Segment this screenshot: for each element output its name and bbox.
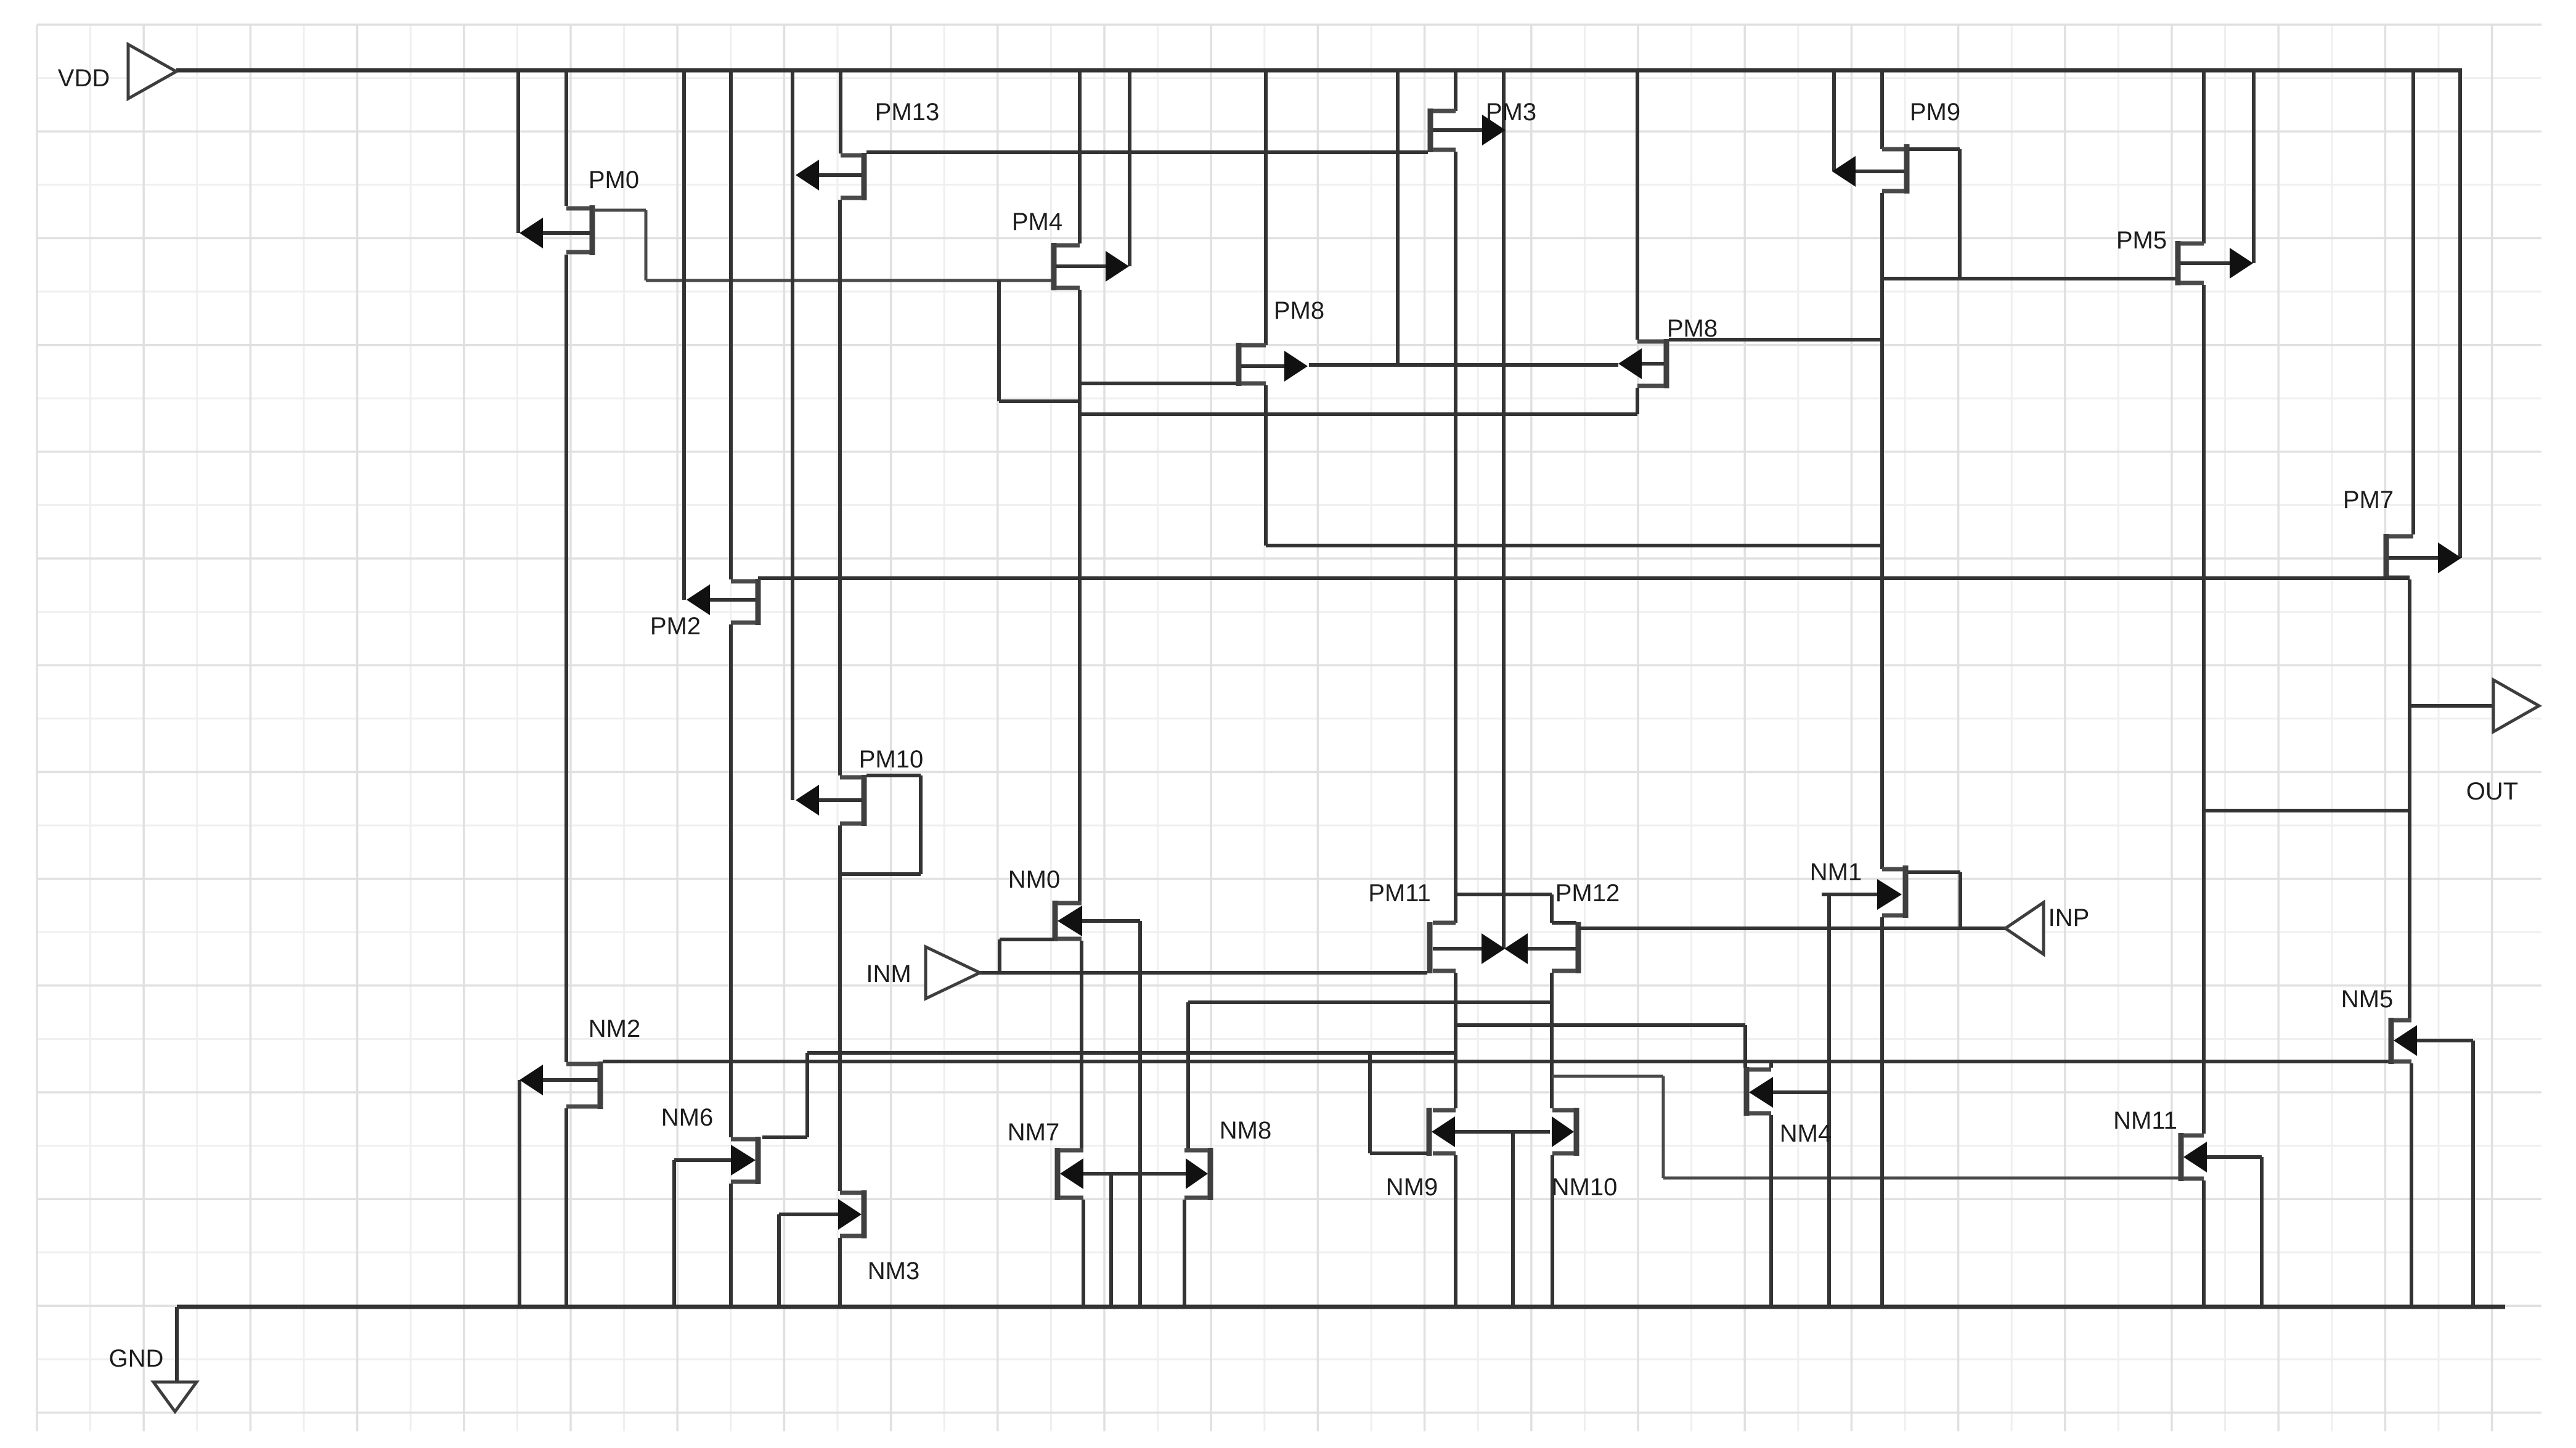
svg-text:NM9: NM9 — [1386, 1174, 1438, 1201]
svg-text:NM3: NM3 — [868, 1258, 919, 1285]
svg-text:PM11: PM11 — [1368, 880, 1431, 907]
svg-text:PM7: PM7 — [2343, 486, 2394, 513]
svg-text:PM5: PM5 — [2116, 227, 2167, 254]
svg-text:NM2: NM2 — [589, 1015, 640, 1042]
svg-text:GND: GND — [109, 1345, 164, 1372]
svg-text:PM0: PM0 — [589, 166, 639, 194]
svg-text:PM3: PM3 — [1486, 99, 1536, 126]
svg-text:PM12: PM12 — [1555, 880, 1620, 907]
svg-text:PM4: PM4 — [1012, 208, 1062, 235]
svg-text:NM4: NM4 — [1780, 1120, 1832, 1147]
svg-text:NM5: NM5 — [2341, 986, 2393, 1013]
svg-text:PM9: PM9 — [1910, 99, 1960, 126]
svg-text:VDD: VDD — [58, 65, 110, 92]
svg-text:PM13: PM13 — [875, 99, 940, 126]
svg-text:NM11: NM11 — [2113, 1107, 2177, 1134]
svg-text:NM8: NM8 — [1220, 1117, 1271, 1144]
svg-text:NM1: NM1 — [1810, 859, 1862, 886]
svg-text:PM2: PM2 — [650, 613, 701, 640]
svg-text:INP: INP — [2048, 904, 2090, 931]
svg-text:PM10: PM10 — [859, 746, 924, 773]
svg-text:OUT: OUT — [2466, 778, 2518, 805]
svg-text:NM10: NM10 — [1552, 1174, 1618, 1201]
svg-text:PM8: PM8 — [1667, 315, 1718, 342]
svg-text:INM: INM — [866, 960, 911, 988]
svg-text:PM8: PM8 — [1274, 297, 1324, 324]
svg-text:NM6: NM6 — [661, 1104, 713, 1131]
svg-text:NM7: NM7 — [1008, 1119, 1059, 1146]
svg-text:NM0: NM0 — [1008, 866, 1060, 893]
